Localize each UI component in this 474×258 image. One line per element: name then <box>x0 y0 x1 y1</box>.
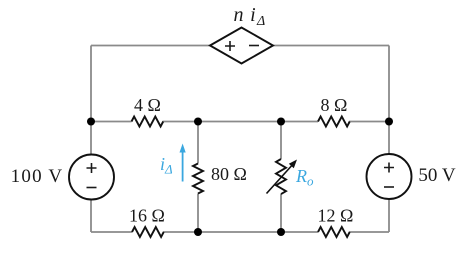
svg-text:80 Ω: 80 Ω <box>211 164 247 184</box>
svg-text:50 V: 50 V <box>418 165 455 186</box>
svg-text:4 Ω: 4 Ω <box>134 95 161 115</box>
svg-text:8 Ω: 8 Ω <box>321 95 348 115</box>
svg-text:16 Ω: 16 Ω <box>129 206 165 226</box>
svg-text:12 Ω: 12 Ω <box>318 206 354 226</box>
svg-text:100 V: 100 V <box>11 166 64 187</box>
